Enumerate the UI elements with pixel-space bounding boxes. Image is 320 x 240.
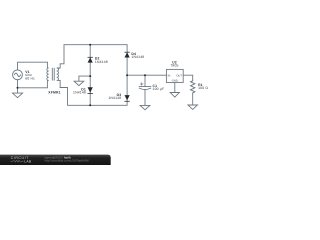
svg-text:LAB: LAB: [24, 160, 32, 164]
svg-text:1N4148: 1N4148: [95, 60, 108, 64]
footer logo waveform: [11, 160, 24, 162]
voltage source V1: [13, 70, 23, 80]
wire U2 GND pin: [174, 83, 176, 93]
diode D4 body: [125, 52, 130, 57]
junction dot C1 top: [144, 74, 146, 76]
ground at U2: [170, 93, 179, 98]
wire D4/D3 branch vertical: [126, 45, 128, 106]
wire U2 OUT to R1: [183, 75, 193, 80]
capacitor C1 leads: [144, 75, 146, 86]
wire ground tap at D1/D2 midpoint: [79, 76, 90, 81]
svg-text:GND: GND: [172, 79, 178, 82]
transformer XFMR1 secondary winding: [57, 64, 60, 88]
svg-text:7805: 7805: [170, 64, 178, 68]
wire V1 top lead: [18, 62, 48, 70]
wire V1 to transformer primary bottom: [18, 87, 48, 89]
junction dot D2 top rail: [89, 44, 91, 46]
svg-text:100 µF: 100 µF: [153, 87, 165, 91]
wire V1 bottom lead: [17, 80, 19, 93]
wire D2 branch vertical: [89, 45, 91, 106]
wire rectifier output to regulator IN: [127, 74, 166, 76]
junction dot D1 bottom rail: [89, 104, 91, 106]
diode D2 body: [88, 57, 93, 62]
ground at R1: [188, 105, 198, 109]
junction dot D1/D2 midpoint: [89, 75, 91, 77]
svg-text:100 Ω: 100 Ω: [198, 86, 208, 90]
svg-text:http://circuitlab.com/c/107lbp: http://circuitlab.com/c/107lbp8v5k6: [45, 159, 90, 163]
diode D1 body: [88, 87, 93, 92]
junction dot V1 bottom: [17, 87, 19, 89]
resistor R1: [191, 80, 195, 93]
wire secondary top to rectifier top rail: [60, 45, 127, 64]
wire secondary bottom to rectifier bottom rail: [60, 88, 127, 106]
svg-text:OUT: OUT: [176, 74, 182, 77]
junction dot D3/D4 midpoint: [126, 74, 128, 76]
svg-text:1N4148: 1N4148: [108, 96, 121, 100]
svg-text:1N4148: 1N4148: [131, 55, 144, 59]
wire R1 to ground: [192, 93, 194, 105]
transformer XFMR1 core: [51, 68, 53, 80]
svg-text:XFMR1: XFMR1: [48, 91, 60, 95]
diode D3 body: [125, 95, 130, 100]
svg-text:1N4148: 1N4148: [73, 91, 86, 95]
svg-text:IN: IN: [168, 74, 171, 77]
transformer XFMR1 primary winding: [47, 62, 49, 88]
svg-text:60 Hz: 60 Hz: [25, 77, 35, 81]
capacitor C1 plus sign: [140, 83, 143, 86]
ground at rectifier midpoint: [74, 81, 84, 85]
regulator U2 box: [166, 69, 183, 82]
ground at V1: [13, 93, 23, 98]
ground at C1: [140, 105, 150, 109]
